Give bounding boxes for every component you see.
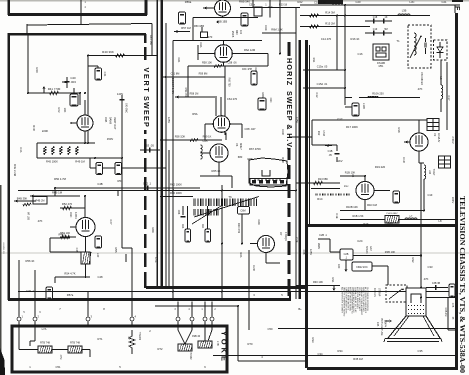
picture tube funnel bbox=[388, 316, 440, 338]
long wire y291 bbox=[18, 291, 456, 293]
svg-text:KINE SOC: KINE SOC bbox=[356, 266, 368, 269]
wire y277 bbox=[55, 276, 90, 278]
svg-text:1KV: 1KV bbox=[337, 159, 342, 163]
wire y66 row bbox=[188, 65, 268, 67]
svg-text:R6A 12M: R6A 12M bbox=[244, 48, 256, 52]
svg-text:R58 1M: R58 1M bbox=[190, 93, 199, 96]
svg-text:R45: R45 bbox=[50, 148, 53, 153]
wire y88 arrow bbox=[303, 87, 345, 89]
svg-text:R2A: R2A bbox=[239, 252, 243, 257]
svg-text:C1B: C1B bbox=[328, 150, 333, 153]
svg-text:1K: 1K bbox=[385, 16, 388, 19]
wire x90 bbox=[89, 158, 91, 168]
resistor R41 bbox=[50, 91, 59, 94]
component box C42 bbox=[96, 163, 103, 175]
terminal circles left bbox=[17, 317, 21, 321]
wire y297 right bbox=[426, 297, 456, 299]
svg-text:R1D 1M: R1D 1M bbox=[367, 203, 378, 207]
cap pair row2 bbox=[365, 32, 392, 34]
svg-text:5M: 5M bbox=[384, 28, 387, 31]
svg-text:CLOCKWISE ROTATION: CLOCKWISE ROTATION bbox=[366, 287, 369, 311]
svg-text:R50 4.7M: R50 4.7M bbox=[54, 177, 66, 181]
component box S1 bbox=[352, 103, 359, 116]
svg-text:R7B 748: R7B 748 bbox=[70, 342, 80, 345]
wire x85 to lower tube bbox=[84, 196, 86, 217]
arrow left low bbox=[14, 200, 36, 202]
wire y137 bbox=[290, 136, 312, 138]
svg-text:C62 .1: C62 .1 bbox=[143, 182, 152, 186]
svg-text:R43 15K: R43 15K bbox=[149, 35, 153, 45]
svg-text:R52 470: R52 470 bbox=[62, 202, 73, 206]
svg-text:.003: .003 bbox=[70, 80, 76, 84]
svg-text:R1B 1.5K: R1B 1.5K bbox=[352, 214, 363, 218]
svg-text:47M: 47M bbox=[59, 355, 62, 360]
tube V6B bbox=[210, 144, 228, 162]
svg-text:C2D: C2D bbox=[252, 265, 256, 270]
svg-text:R47: R47 bbox=[66, 148, 69, 153]
svg-text:L40: L40 bbox=[96, 253, 100, 258]
svg-text:R30 10K: R30 10K bbox=[313, 280, 323, 284]
top wire y5 bbox=[300, 4, 455, 6]
yoke right coils bbox=[178, 344, 192, 351]
svg-text:R41 7.5M: R41 7.5M bbox=[48, 87, 61, 91]
divider bundle thin companion 2 bbox=[168, 150, 170, 288]
svg-text:R1C: R1C bbox=[317, 197, 322, 201]
svg-text:PICTURE TUBE: PICTURE TUBE bbox=[380, 318, 383, 336]
diode dashed box bbox=[434, 40, 448, 60]
svg-text:C68 .047: C68 .047 bbox=[245, 127, 256, 131]
svg-text:450V: 450V bbox=[107, 137, 113, 141]
svg-text:R49 1M: R49 1M bbox=[75, 160, 85, 164]
wire y255 to crt bbox=[352, 255, 421, 257]
choke L40 hatched bbox=[81, 252, 90, 264]
svg-text:SPARK: SPARK bbox=[365, 246, 368, 254]
svg-text:R64: R64 bbox=[201, 224, 204, 229]
svg-text:VERT: VERT bbox=[142, 68, 151, 94]
svg-text:R40: R40 bbox=[35, 67, 39, 73]
svg-text:12B4: 12B4 bbox=[74, 212, 78, 219]
wire y26 R15 bbox=[300, 26, 370, 28]
svg-text:C65: C65 bbox=[203, 139, 208, 143]
svg-text:C61 8M: C61 8M bbox=[171, 73, 180, 76]
svg-text:C3B: C3B bbox=[302, 250, 305, 255]
svg-text:R57 1M: R57 1M bbox=[181, 26, 191, 30]
wire y70 arrow bbox=[303, 69, 345, 71]
ladder resistors bbox=[44, 147, 46, 155]
tick ruler line bbox=[316, 194, 350, 196]
ladder top wire y143 bbox=[37, 142, 95, 144]
svg-text:R50 1BB: R50 1BB bbox=[194, 25, 204, 28]
svg-text:R72: R72 bbox=[158, 347, 163, 351]
top-right partial box bar bbox=[318, 0, 343, 4]
wires around V5A bbox=[222, 16, 224, 18]
extra wires near V6 tubes bbox=[215, 96, 217, 116]
wire x337 bbox=[336, 16, 338, 71]
svg-text:M7 LBB: M7 LBB bbox=[27, 212, 29, 221]
svg-text:C4C: C4C bbox=[154, 257, 158, 262]
wirewound resistor box bbox=[385, 216, 399, 224]
svg-text:C51: C51 bbox=[56, 365, 61, 369]
svg-text:5AN8: 5AN8 bbox=[109, 117, 113, 124]
svg-text:R4B 39K: R4B 39K bbox=[17, 197, 28, 201]
wire x28 into section bbox=[27, 34, 29, 93]
svg-text:125V: 125V bbox=[309, 249, 313, 255]
component box CB1 bbox=[179, 12, 186, 24]
svg-text:C12: C12 bbox=[315, 93, 319, 98]
arrow left of tube bbox=[203, 7, 214, 9]
right section bottom border bbox=[306, 224, 457, 227]
picture section bottom border bbox=[307, 367, 458, 370]
right bundle thick 2 bbox=[305, 40, 308, 368]
flyback winding upper bbox=[194, 199, 256, 207]
svg-text:R58 10K: R58 10K bbox=[202, 61, 212, 65]
svg-text:270: 270 bbox=[208, 35, 213, 39]
svg-text:R6D: R6D bbox=[281, 157, 285, 162]
svg-text:R3B 1M: R3B 1M bbox=[444, 308, 447, 317]
wire y168 cross bbox=[146, 167, 166, 169]
svg-text:R23 18: R23 18 bbox=[279, 4, 288, 7]
svg-text:R7B 748: R7B 748 bbox=[40, 342, 50, 345]
cap C6M under flyback bbox=[182, 206, 184, 215]
svg-text:4-HMB1-R3: 4-HMB1-R3 bbox=[2, 242, 4, 254]
IC module box bbox=[373, 44, 389, 60]
svg-text:C18: C18 bbox=[373, 16, 378, 19]
svg-text:L7B: L7B bbox=[216, 341, 220, 346]
tube V4B bbox=[77, 115, 93, 131]
hv cage corner wires bbox=[312, 119, 428, 121]
wire y188 crossing to middle bbox=[55, 187, 162, 189]
svg-text:220K: 220K bbox=[42, 129, 48, 133]
svg-text:100: 100 bbox=[239, 30, 242, 35]
wire y188 R62 bbox=[160, 187, 200, 189]
wire x345 long bbox=[344, 5, 346, 105]
svg-text:R30: R30 bbox=[337, 264, 340, 269]
tube V4C leads bbox=[70, 226, 76, 228]
svg-text:R32: R32 bbox=[411, 258, 415, 263]
corridor wires bbox=[155, 305, 238, 307]
svg-text:HORIZ: HORIZ bbox=[189, 352, 191, 360]
wire x88 drop bbox=[87, 56, 89, 144]
svg-text:C41: C41 bbox=[103, 72, 107, 77]
if corner dash bbox=[452, 0, 463, 2]
svg-text:PHOS BRZ: PHOS BRZ bbox=[386, 213, 398, 215]
scan top edge bbox=[0, 0, 469, 2]
svg-text:R59 470: R59 470 bbox=[184, 87, 187, 97]
V3 leads bbox=[364, 176, 366, 182]
svg-text:SWEEP & H.V.: SWEEP & H.V. bbox=[285, 91, 294, 150]
svg-text:6.8K: 6.8K bbox=[387, 221, 393, 225]
svg-text:B+: B+ bbox=[298, 307, 302, 311]
svg-text:C15A .01: C15A .01 bbox=[317, 82, 328, 86]
component box C44 bbox=[95, 236, 102, 248]
svg-text:R5A: R5A bbox=[192, 112, 197, 116]
component box C41 bbox=[95, 68, 102, 80]
yoke left coil 1 bbox=[38, 346, 52, 353]
svg-text:R54 4.7K: R54 4.7K bbox=[64, 272, 75, 276]
long wire x222 to yoke bbox=[221, 185, 223, 301]
svg-text:390V: 390V bbox=[317, 243, 321, 249]
svg-text:C34: C34 bbox=[318, 352, 323, 356]
wire y15 R14 bbox=[300, 15, 430, 17]
picture tube socket bbox=[406, 288, 426, 316]
svg-text:R29 47M: R29 47M bbox=[237, 223, 240, 233]
wire y181 bbox=[340, 175, 365, 177]
svg-text:R42: R42 bbox=[57, 108, 61, 113]
svg-text:R57a: R57a bbox=[67, 293, 74, 297]
hv rect box small bbox=[254, 7, 262, 16]
svg-text:STRAP: STRAP bbox=[378, 288, 381, 297]
wire y210 bbox=[340, 210, 424, 212]
wire y8 partial bbox=[240, 7, 300, 9]
hanging comps under flyback bbox=[187, 206, 189, 229]
svg-text:R12: R12 bbox=[317, 131, 320, 136]
svg-text:17DQ6: 17DQ6 bbox=[284, 232, 288, 241]
divider bundle line 2 bbox=[160, 0, 163, 288]
cap C40 bbox=[66, 77, 68, 88]
svg-text:R66: R66 bbox=[261, 93, 265, 98]
svg-text:R65 1K: R65 1K bbox=[212, 169, 221, 173]
svg-text:L3B: L3B bbox=[402, 9, 407, 13]
resistor R52 bbox=[63, 206, 72, 209]
tube leads bbox=[84, 100, 86, 115]
flyback terminal strip bbox=[250, 179, 287, 186]
svg-text:R22: R22 bbox=[298, 0, 303, 4]
long wire x173 to yoke bbox=[172, 82, 174, 301]
coil on y219 bbox=[405, 218, 417, 219]
wire into cap box bbox=[330, 251, 340, 253]
svg-text:C1E: C1E bbox=[335, 213, 339, 218]
component box C6M bbox=[238, 207, 250, 215]
wire to C41 bbox=[88, 65, 98, 67]
svg-text:C1C: C1C bbox=[337, 117, 342, 121]
wire top feed bbox=[27, 24, 152, 26]
svg-text:VERT OUT: VERT OUT bbox=[113, 117, 116, 130]
svg-text:R70: R70 bbox=[248, 342, 253, 346]
divider bundle line 1 bbox=[156, 0, 158, 288]
page left edge shadow bbox=[0, 185, 2, 375]
svg-text:1K3/HV: 1K3/HV bbox=[437, 133, 441, 142]
svg-text:6DE7: 6DE7 bbox=[239, 143, 243, 150]
svg-text:1K3: 1K3 bbox=[268, 5, 273, 9]
svg-text:C66: C66 bbox=[177, 210, 180, 215]
tube V6A bbox=[213, 116, 230, 133]
svg-text:C45: C45 bbox=[75, 248, 79, 253]
svg-text:C58 .06: C58 .06 bbox=[227, 61, 237, 65]
svg-text:35C5: 35C5 bbox=[231, 31, 235, 38]
wire y97 bbox=[175, 96, 215, 98]
svg-text:R16 1K: R16 1K bbox=[351, 37, 360, 41]
svg-text:1.5M: 1.5M bbox=[322, 130, 325, 136]
svg-text:R59 8M: R59 8M bbox=[199, 73, 208, 76]
svg-text:C6D: C6D bbox=[281, 129, 285, 134]
divider bundle thin companion bbox=[165, 23, 167, 288]
tube V3 bbox=[356, 182, 374, 200]
svg-text:R34: R34 bbox=[338, 349, 343, 353]
svg-text:C14 470: C14 470 bbox=[321, 37, 332, 41]
component box c4 bbox=[449, 284, 455, 297]
svg-text:125V: 125V bbox=[295, 117, 299, 123]
svg-text:R17 100K: R17 100K bbox=[346, 125, 358, 129]
svg-text:140V: 140V bbox=[117, 92, 123, 96]
svg-text:L10B: L10B bbox=[362, 103, 365, 109]
svg-text:C2C: C2C bbox=[357, 239, 362, 243]
vert section outer border left bbox=[7, 33, 10, 300]
wire hook at border bbox=[454, 5, 456, 13]
picture tube face bbox=[385, 338, 441, 340]
svg-text:C1F: C1F bbox=[427, 193, 432, 197]
svg-text:L8: L8 bbox=[439, 219, 442, 223]
wire y97 bbox=[345, 97, 352, 99]
svg-text:R69: R69 bbox=[151, 228, 155, 233]
svg-text:10B: 10B bbox=[376, 322, 379, 327]
component box C4F bbox=[70, 94, 78, 106]
V2 leads bbox=[418, 120, 420, 133]
V5B leads bbox=[198, 53, 215, 55]
svg-text:C6A: C6A bbox=[199, 42, 203, 47]
svg-text:R10A 250: R10A 250 bbox=[372, 92, 384, 96]
wire drop x27 bbox=[26, 24, 28, 34]
svg-text:R51: R51 bbox=[118, 179, 123, 183]
vertical x188 bbox=[187, 66, 189, 97]
svg-text:C61: C61 bbox=[177, 58, 181, 63]
svg-text:R4D: R4D bbox=[32, 125, 36, 130]
HV lead to CRT bbox=[420, 163, 422, 288]
svg-text:C50: C50 bbox=[268, 327, 273, 331]
right bundle thin 2 bbox=[309, 45, 311, 225]
svg-text:YOKE: YOKE bbox=[219, 331, 228, 364]
svg-text:C47: C47 bbox=[109, 220, 113, 225]
wire y190 long cross bbox=[18, 190, 296, 192]
vertical x225 bbox=[224, 66, 226, 135]
resistor R53 bbox=[61, 235, 70, 238]
svg-text:L7A: L7A bbox=[42, 327, 47, 331]
svg-text:C33: C33 bbox=[428, 265, 433, 269]
wire x152 top drop bbox=[151, 24, 153, 56]
shield enclosure blob bbox=[249, 158, 288, 187]
wire y77 row bbox=[163, 76, 225, 78]
svg-text:47K: 47K bbox=[418, 87, 423, 91]
svg-text:C2E: C2E bbox=[295, 237, 299, 242]
svg-text:R59 1K: R59 1K bbox=[203, 135, 212, 139]
right edge wire bbox=[446, 62, 448, 130]
svg-text:R63: R63 bbox=[181, 224, 184, 229]
vert sweep boundary dashes upper bbox=[144, 34, 147, 43]
svg-text:OSC/MIXER: OSC/MIXER bbox=[420, 72, 422, 85]
svg-text:R13 68K: R13 68K bbox=[318, 177, 328, 181]
svg-text:R35 1M: R35 1M bbox=[353, 357, 363, 361]
right outer border bbox=[455, 13, 458, 370]
svg-text:C15a .05: C15a .05 bbox=[317, 65, 328, 69]
svg-text:C3B 3B: C3B 3B bbox=[432, 282, 441, 285]
svg-text:47K: 47K bbox=[38, 219, 43, 223]
plug P1 bbox=[427, 119, 439, 131]
wire y196 bbox=[160, 196, 193, 198]
svg-text:THERM: THERM bbox=[138, 332, 140, 340]
component box CB2 bbox=[241, 13, 248, 26]
svg-text:R56a: R56a bbox=[185, 0, 192, 4]
svg-text:TELEVISION CHASSIS TS, VTS, &: TELEVISION CHASSIS TS, VTS, & WTS-538A-0… bbox=[458, 196, 467, 373]
svg-text:R6C: R6C bbox=[235, 30, 238, 35]
wire y219 wirewound bbox=[340, 219, 456, 221]
wire y55 R40 39K bbox=[88, 55, 158, 57]
svg-text:BOOST 540V: BOOST 540V bbox=[171, 78, 175, 95]
svg-text:UNLESS OTHERWISE NOTED: UNLESS OTHERWISE NOTED bbox=[342, 287, 344, 317]
svg-text:10K: 10K bbox=[63, 108, 67, 113]
wire y107 segment bbox=[345, 106, 352, 108]
top-left box border bbox=[8, 13, 147, 16]
svg-text:L1B: L1B bbox=[428, 170, 431, 175]
yoke left coil 2 bbox=[68, 346, 82, 353]
svg-text:R4B 1: R4B 1 bbox=[59, 234, 67, 237]
svg-text:V7: V7 bbox=[279, 232, 283, 236]
bottom border H1 bbox=[146, 286, 308, 289]
svg-text:C67: C67 bbox=[254, 68, 258, 73]
svg-text:R67 470K: R67 470K bbox=[249, 147, 261, 151]
svg-text:C48: C48 bbox=[98, 275, 103, 279]
svg-text:R6M 1.3K: R6M 1.3K bbox=[271, 28, 283, 32]
wires down to yoke terminals left bbox=[18, 260, 20, 317]
coil trap bbox=[424, 165, 426, 179]
plug P2 bbox=[439, 156, 451, 168]
wires lower right corridor bbox=[278, 328, 456, 330]
svg-text:C21: C21 bbox=[442, 0, 447, 4]
svg-text:L3C: L3C bbox=[410, 0, 415, 4]
svg-text:R40 39K: R40 39K bbox=[102, 50, 114, 54]
vert section top border bbox=[8, 33, 146, 36]
component box c6c bbox=[251, 71, 257, 85]
svg-text:18KV: 18KV bbox=[451, 197, 455, 204]
arrow down from box bbox=[345, 260, 347, 270]
paper fold line bbox=[0, 252, 469, 254]
arrow node bbox=[42, 86, 45, 89]
bottom border H2 bbox=[8, 298, 291, 301]
wire from box down bbox=[241, 214, 243, 244]
svg-text:R62 100K: R62 100K bbox=[170, 183, 182, 187]
wire loop route bbox=[50, 237, 70, 239]
junction and cap bbox=[201, 32, 203, 34]
svg-text:C40 SMC: C40 SMC bbox=[125, 103, 127, 113]
terminals middle bbox=[177, 302, 179, 318]
right section wire y285 bbox=[296, 285, 340, 287]
wire y33 R6M bbox=[262, 32, 296, 34]
svg-text:C63 .05: C63 .05 bbox=[144, 144, 154, 148]
component box C43 bbox=[115, 163, 122, 175]
svg-text:R60 100K: R60 100K bbox=[170, 191, 182, 195]
svg-text:R46: R46 bbox=[58, 148, 61, 153]
svg-text:R60 750: R60 750 bbox=[228, 77, 231, 87]
component box C2B bbox=[340, 249, 353, 260]
svg-text:R68: R68 bbox=[248, 157, 253, 161]
svg-text:M51: M51 bbox=[379, 65, 384, 68]
cap C63 crossing bbox=[140, 149, 160, 151]
wire top bundle middle bbox=[252, 0, 254, 8]
svg-text:C69: C69 bbox=[257, 220, 261, 225]
svg-text:R31: R31 bbox=[331, 278, 335, 283]
horiz sweep boundary dash top bbox=[288, 42, 291, 56]
svg-text:C64 270: C64 270 bbox=[227, 97, 238, 101]
svg-text:R15 2M: R15 2M bbox=[325, 22, 335, 26]
svg-text:HORIZ: HORIZ bbox=[285, 58, 294, 86]
svg-text:C9B 40: C9B 40 bbox=[192, 335, 201, 338]
svg-text:R4E 2.2M: R4E 2.2M bbox=[13, 164, 17, 177]
extra junction dots bus bbox=[172, 291, 174, 293]
component box C46 bbox=[46, 287, 53, 299]
svg-text:V2: V2 bbox=[433, 133, 437, 137]
svg-text:R71: R71 bbox=[98, 337, 103, 341]
svg-text:R18: R18 bbox=[397, 128, 401, 133]
svg-text:680: 680 bbox=[238, 155, 243, 159]
svg-text:R56 1K: R56 1K bbox=[26, 259, 35, 263]
